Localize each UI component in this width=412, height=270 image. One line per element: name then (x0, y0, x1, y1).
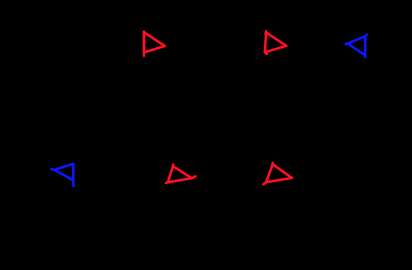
current arrow I1 (red, pointing right, top-left wire) (144, 32, 165, 56)
electron flow arrow E2 (blue, pointing left, bottom-left wire) (51, 164, 73, 186)
electron flow arrow E1 (blue, pointing left, top-right wire) (346, 35, 367, 57)
current arrow I2 (red, pointing right, top-middle wire) (265, 31, 287, 54)
current arrow I3 (red, pointing right, bottom-middle wire) (166, 165, 196, 184)
current arrow I4 (red, pointing right, bottom-right wire) (263, 163, 292, 185)
